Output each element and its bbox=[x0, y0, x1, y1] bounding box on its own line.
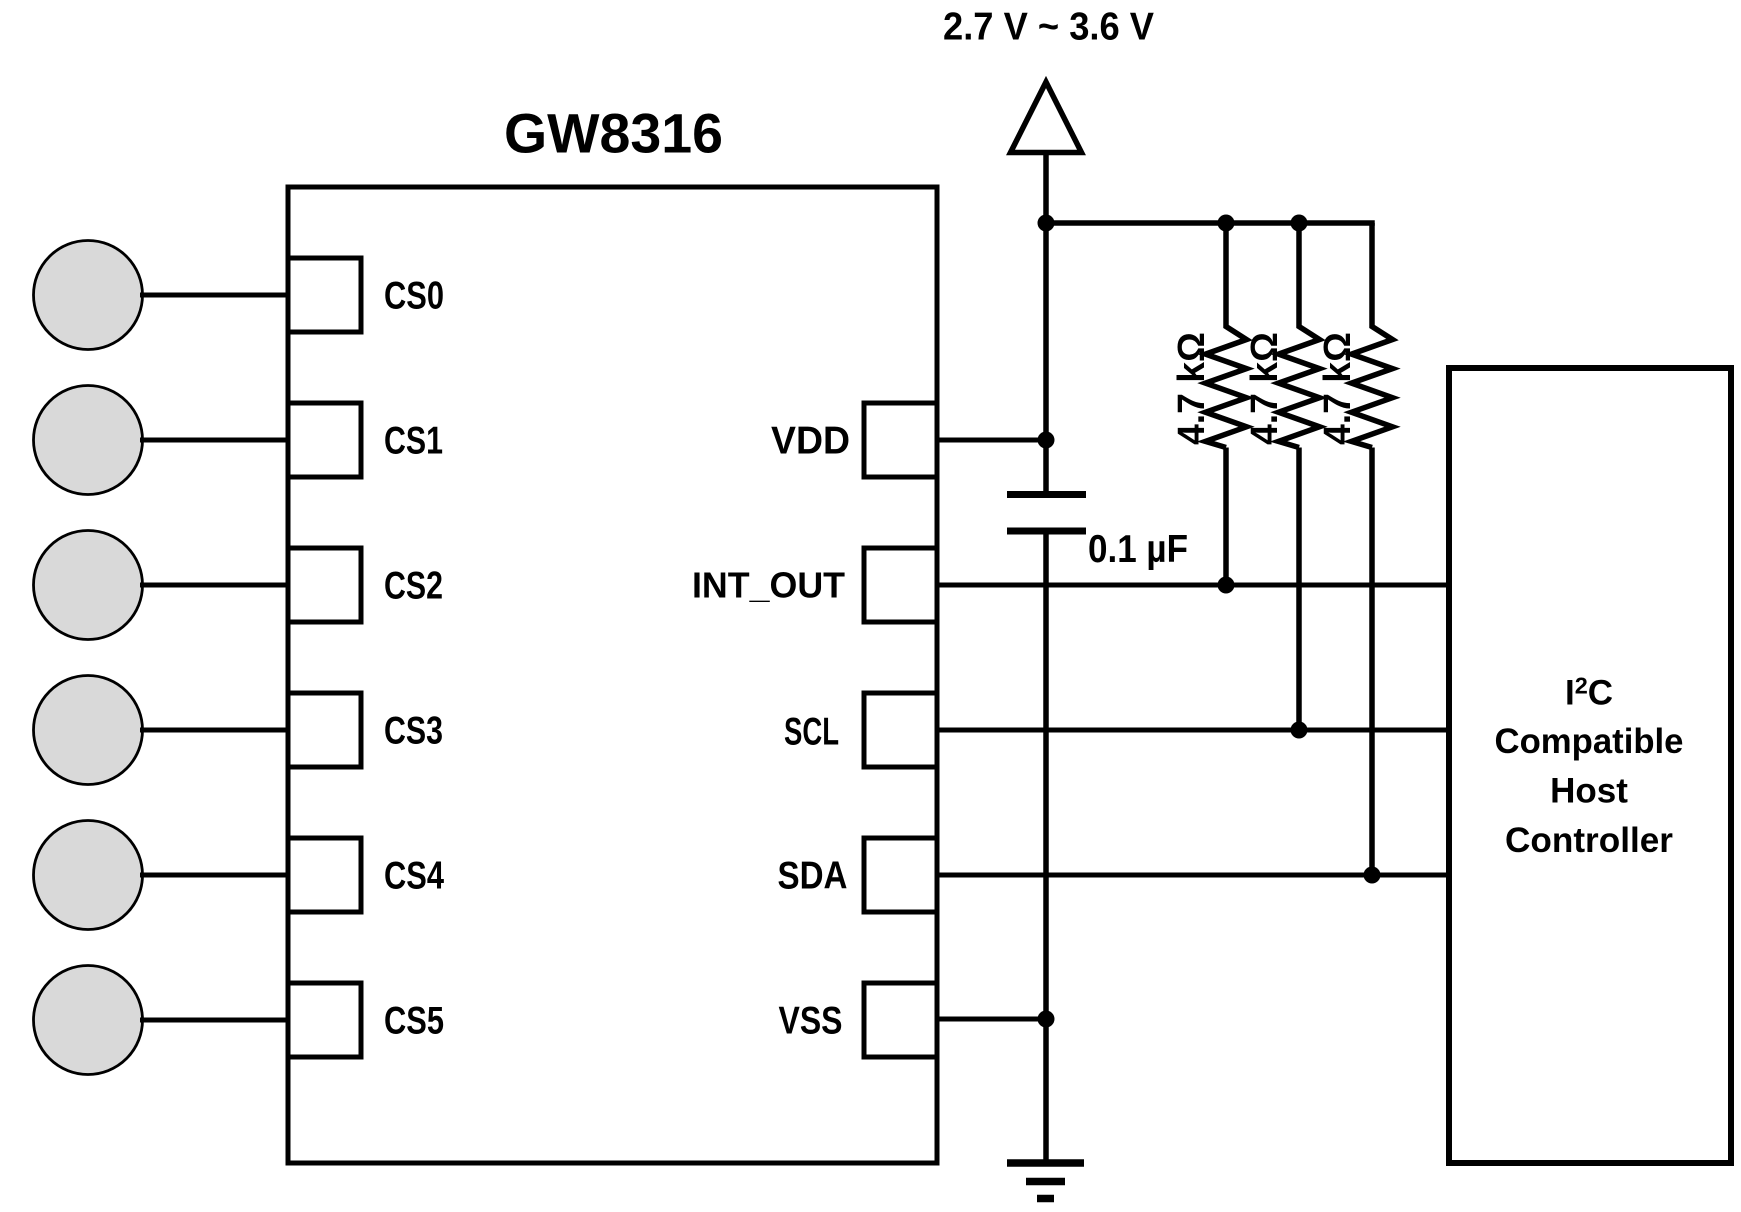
svg-text:CS5: CS5 bbox=[384, 1000, 444, 1043]
touch pad electrode for CS5 bbox=[34, 966, 143, 1075]
pin box CS0 bbox=[288, 258, 361, 332]
pin box CS1 bbox=[288, 403, 361, 477]
wire pad to CS5 pin bbox=[140, 1018, 288, 1023]
svg-text:INT_OUT: INT_OUT bbox=[692, 565, 845, 606]
svg-text:VSS: VSS bbox=[779, 1000, 843, 1043]
host controller block U2 bbox=[1449, 368, 1731, 1163]
pin box VDD bbox=[864, 403, 937, 477]
svg-text:I2C: I2C bbox=[1565, 672, 1613, 712]
pin box SDA bbox=[864, 838, 937, 912]
touch pad electrode for CS2 bbox=[34, 531, 143, 640]
touch pad electrode for CS3 bbox=[34, 676, 143, 785]
node R1 / INT_OUT junction bbox=[1218, 577, 1235, 594]
svg-text:Compatible: Compatible bbox=[1495, 722, 1684, 761]
svg-text:4.7 kΩ: 4.7 kΩ bbox=[1317, 332, 1359, 445]
wire pad to CS4 pin bbox=[140, 873, 288, 878]
power supply symbol (triangle) VDD rail bbox=[1011, 82, 1082, 153]
svg-text:4.7 kΩ: 4.7 kΩ bbox=[1171, 332, 1213, 445]
wire SCL pin to host controller bbox=[937, 728, 1449, 733]
svg-text:GW8316: GW8316 bbox=[504, 102, 723, 165]
wire resistor R3 bottom lead bbox=[1369, 448, 1375, 876]
svg-text:CS4: CS4 bbox=[384, 855, 444, 898]
svg-text:Host: Host bbox=[1550, 771, 1628, 810]
wire VDD pin to supply node bbox=[937, 438, 1046, 443]
svg-text:CS1: CS1 bbox=[384, 420, 443, 463]
pin box CS5 bbox=[288, 983, 361, 1057]
resistor R3 4.7 kOhm pull-up (zigzag) bbox=[1352, 223, 1393, 448]
svg-text:CS3: CS3 bbox=[384, 710, 443, 753]
wire INT_OUT pin to host controller bbox=[937, 583, 1449, 588]
wire capacitor bottom plate down to ground bbox=[1043, 531, 1049, 1163]
IC U1 GW8316 body bbox=[288, 187, 937, 1163]
node R1 top junction bbox=[1218, 215, 1235, 232]
node R3 / SDA junction bbox=[1364, 867, 1381, 884]
svg-text:CS2: CS2 bbox=[384, 565, 443, 608]
wire supply triangle down to top rail and VDD junction to capacitor top plate bbox=[1043, 151, 1049, 492]
node supply rail / triangle junction bbox=[1038, 215, 1055, 232]
touch pad electrode for CS4 bbox=[34, 821, 143, 930]
wire pad to CS2 pin bbox=[140, 583, 288, 588]
touch pad electrode for CS1 bbox=[34, 386, 143, 495]
svg-text:SDA: SDA bbox=[778, 855, 848, 898]
wire pad to CS0 pin bbox=[140, 293, 288, 298]
svg-text:SCL: SCL bbox=[784, 711, 839, 754]
node R2 / SCL junction bbox=[1291, 722, 1308, 739]
ground symbol bbox=[1007, 1163, 1084, 1199]
wire top VDD rail to pull-up resistors bbox=[1046, 220, 1375, 226]
pin box CS3 bbox=[288, 693, 361, 767]
svg-text:4.7 kΩ: 4.7 kΩ bbox=[1244, 332, 1286, 445]
wire pad to CS3 pin bbox=[140, 728, 288, 733]
pin box CS4 bbox=[288, 838, 361, 912]
resistor R2 4.7 kOhm pull-up (zigzag) bbox=[1279, 223, 1320, 448]
wire resistor R2 bottom lead bbox=[1296, 448, 1302, 731]
svg-text:0.1 µF: 0.1 µF bbox=[1088, 528, 1188, 571]
pin box SCL bbox=[864, 693, 937, 767]
capacitor C1 0.1 uF top plate bbox=[1007, 491, 1086, 498]
pin box INT_OUT bbox=[864, 548, 937, 622]
wire VSS pin to ground line bbox=[937, 1017, 1046, 1022]
resistor R1 4.7 kOhm pull-up (zigzag) bbox=[1206, 223, 1247, 448]
wire resistor R1 bottom lead bbox=[1223, 448, 1229, 586]
wire SDA pin to host controller bbox=[937, 873, 1449, 878]
node R2 top junction bbox=[1291, 215, 1308, 232]
pin box VSS bbox=[864, 983, 937, 1057]
capacitor C1 0.1 uF bottom plate bbox=[1007, 528, 1086, 535]
wire pad to CS1 pin bbox=[140, 438, 288, 443]
touch pad electrode for CS0 bbox=[34, 241, 143, 350]
node VSS / ground line junction bbox=[1038, 1011, 1055, 1028]
svg-text:CS0: CS0 bbox=[384, 275, 444, 318]
pin box CS2 bbox=[288, 548, 361, 622]
svg-text:Controller: Controller bbox=[1505, 821, 1673, 860]
svg-text:2.7 V ~ 3.6 V: 2.7 V ~ 3.6 V bbox=[943, 6, 1154, 49]
svg-text:VDD: VDD bbox=[771, 420, 850, 463]
node VDD / capacitor junction bbox=[1038, 432, 1055, 449]
